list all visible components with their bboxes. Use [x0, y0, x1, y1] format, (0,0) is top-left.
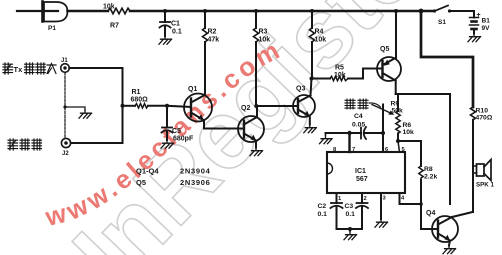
svg-text:9V: 9V — [482, 25, 491, 32]
capacitor C5 — [162, 106, 173, 140]
svg-text:J2: J2 — [62, 151, 69, 157]
svg-text:C4: C4 — [354, 113, 363, 120]
node C5 junction — [165, 104, 169, 108]
wire pin1 with capacitor C2 — [331, 193, 343, 229]
svg-text:B1: B1 — [482, 18, 491, 25]
battery B1 9V — [470, 11, 479, 34]
svg-text:0.1: 0.1 — [172, 29, 182, 36]
svg-text:470Ω: 470Ω — [476, 115, 493, 122]
svg-text:0.05: 0.05 — [352, 122, 365, 129]
ground Q3 — [304, 125, 317, 133]
resistor R6 — [396, 122, 400, 141]
resistor R1 — [123, 104, 168, 108]
resistor R7 — [108, 8, 130, 14]
svg-text:R1: R1 — [132, 89, 141, 96]
ground C4 left — [325, 133, 327, 136]
resistor R2 — [203, 11, 208, 95]
node Q2/R3/Q3 junction — [254, 104, 258, 108]
ground pin3 — [375, 219, 388, 227]
node R1 branch — [121, 104, 125, 108]
pointer tune — [370, 103, 381, 107]
wire ground stub — [65, 107, 85, 110]
wire pin7 riser — [348, 133, 350, 152]
wire pin3 — [380, 193, 382, 219]
wire Q3 collector — [311, 79, 312, 96]
svg-text:Tx: Tx — [14, 65, 24, 74]
resistor R8 — [419, 141, 423, 204]
wire pin4 — [400, 193, 422, 204]
node R2 junction — [203, 9, 207, 13]
label input — [3, 63, 13, 74]
ground C5 — [161, 140, 174, 148]
svg-text:R4: R4 — [315, 29, 324, 36]
node Q4 base junction — [419, 202, 423, 206]
svg-text:C5: C5 — [172, 128, 181, 135]
resistor R9 potentiometer — [396, 94, 400, 122]
svg-text:R9: R9 — [391, 101, 400, 108]
node R4 junction — [310, 9, 314, 13]
svg-text:2.2k: 2.2k — [424, 174, 437, 181]
svg-text:C3: C3 — [345, 203, 354, 210]
svg-text:Q1: Q1 — [188, 86, 197, 93]
label key — [8, 139, 42, 150]
IC1 567 — [327, 152, 405, 193]
wire gnd rail to C4 — [326, 132, 362, 134]
wiper arrow R9 — [372, 105, 394, 115]
svg-text:10k: 10k — [259, 37, 271, 44]
wire top rail middle — [130, 10, 434, 13]
wire top rail left — [68, 10, 109, 13]
svg-text:567: 567 — [356, 176, 368, 183]
node B+ junction — [419, 9, 424, 14]
wire junction to Q4 base — [421, 204, 438, 229]
svg-text:Q5: Q5 — [380, 46, 389, 53]
plug P1 — [17, 2, 68, 22]
ground C1 — [159, 36, 172, 44]
ground C2C3 — [349, 229, 351, 232]
node R4/R5 junction — [310, 77, 314, 81]
resistor R10 — [471, 107, 476, 212]
svg-text:R3: R3 — [259, 29, 268, 36]
svg-text:R8: R8 — [424, 166, 433, 173]
svg-text:0.1: 0.1 — [346, 211, 356, 218]
wire Q1 emitter to Q2 base — [204, 128, 244, 130]
watermark www.elecfans.com — [48, 60, 274, 226]
jack J1 — [61, 64, 70, 73]
svg-text:2: 2 — [364, 196, 367, 202]
svg-text:C2: C2 — [318, 203, 327, 210]
svg-text:10k: 10k — [403, 129, 415, 136]
transistor Q2 — [238, 116, 264, 148]
node Q5 collector junction — [394, 9, 398, 13]
svg-text:10k: 10k — [315, 37, 327, 44]
node C1 junction — [163, 9, 167, 13]
svg-text:Q1-Q4: Q1-Q4 — [136, 167, 159, 176]
svg-text:S1: S1 — [438, 19, 446, 26]
svg-text:R7: R7 — [110, 23, 119, 30]
wire to Q3 base — [256, 105, 298, 107]
svg-text:R6: R6 — [403, 122, 412, 129]
capacitor C1 — [160, 11, 171, 36]
svg-text:680pF: 680pF — [173, 136, 194, 143]
svg-text:1: 1 — [338, 196, 342, 202]
svg-text:+: + — [477, 12, 481, 19]
svg-text:P1: P1 — [48, 25, 56, 32]
svg-text:Q2: Q2 — [241, 105, 250, 112]
wire C5 junction to Q1 base — [167, 106, 191, 107]
node R6 bottom junction — [396, 139, 400, 143]
node sleeve ground branch — [63, 105, 66, 108]
ground Q4 — [443, 246, 456, 254]
svg-text:7: 7 — [352, 147, 355, 153]
resistor R4 — [310, 11, 315, 79]
svg-text:3: 3 — [383, 196, 387, 202]
wire J1 to junction — [69, 68, 122, 143]
wire pin2 with capacitor C3 — [356, 193, 368, 229]
wire Q4 collector to speaker — [452, 212, 473, 217]
svg-text:C1: C1 — [171, 21, 180, 28]
svg-text:2N3906: 2N3906 — [180, 178, 210, 187]
wire Q2 collector — [256, 106, 258, 117]
transistor Q5 — [377, 11, 401, 94]
jack J2 — [61, 138, 70, 147]
transistor Q4 — [432, 216, 458, 246]
label tune — [345, 99, 368, 109]
ground J1/J2 — [79, 110, 92, 118]
wire Q5 emitter rail — [396, 94, 450, 204]
svg-text:R10: R10 — [476, 108, 489, 115]
svg-text:10k: 10k — [334, 72, 346, 79]
svg-text:R2: R2 — [208, 29, 217, 36]
svg-text:47k: 47k — [208, 37, 220, 44]
svg-text:Q5: Q5 — [136, 178, 146, 187]
resistor R5 — [312, 69, 383, 81]
svg-text:R5: R5 — [335, 65, 344, 72]
node pin7 junction — [347, 131, 351, 135]
svg-text:SPK 1: SPK 1 — [476, 182, 494, 189]
switch S1 — [433, 6, 474, 13]
wire R6 to pin5 — [398, 141, 400, 152]
speaker SPK1 — [473, 160, 491, 181]
svg-text:J1: J1 — [61, 58, 68, 64]
svg-text:Q3: Q3 — [296, 86, 305, 93]
svg-text:0.1: 0.1 — [318, 211, 328, 218]
svg-text:680Ω: 680Ω — [131, 97, 149, 104]
node pin6 junction — [381, 131, 385, 135]
resistor R3 — [254, 11, 259, 106]
svg-text:50k: 50k — [392, 108, 404, 115]
ground Q2 — [250, 148, 263, 156]
svg-text:4: 4 — [401, 196, 405, 202]
svg-text:10k: 10k — [103, 4, 115, 11]
svg-text:Q4: Q4 — [426, 210, 435, 217]
svg-text:2N3904: 2N3904 — [180, 167, 211, 176]
wire J2 to junction — [71, 142, 123, 144]
wire R6 junction to R8 — [398, 140, 421, 142]
transistor Q1 — [184, 94, 212, 129]
wire pin6 riser — [382, 105, 384, 153]
wire J1 sleeve down — [64, 72, 66, 138]
capacitor C4 — [361, 127, 383, 139]
wire C2 C3 common — [337, 228, 363, 230]
svg-text:IC1: IC1 — [355, 168, 366, 175]
node R3 junction — [254, 9, 258, 13]
node C2C3 junction — [348, 227, 352, 231]
transistor Q3 — [293, 95, 315, 125]
ground B1 — [468, 34, 481, 42]
wire B+ drop — [421, 11, 473, 107]
